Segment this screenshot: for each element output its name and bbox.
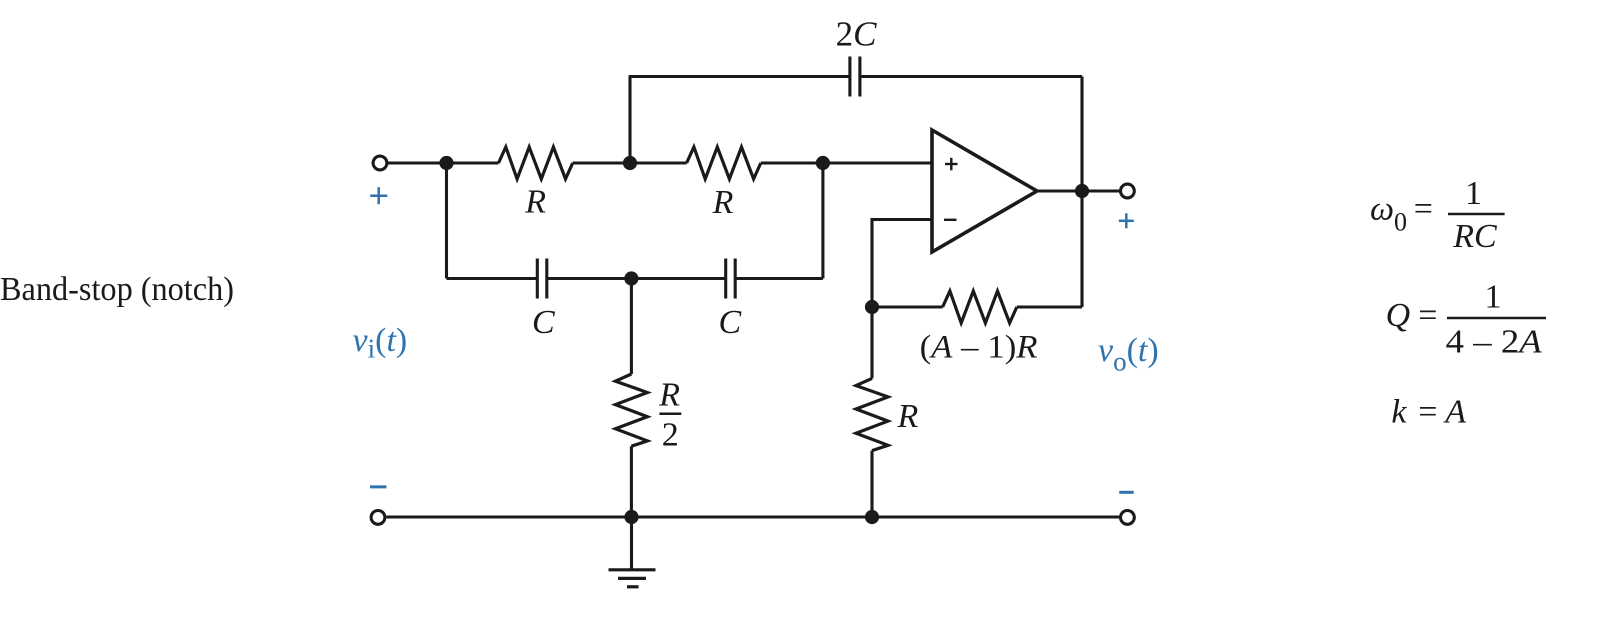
resistor R2: [687, 147, 761, 179]
svg-text:Q: Q: [1386, 297, 1411, 334]
terminal input top: [373, 156, 387, 170]
wire top row right: [860, 75, 1082, 78]
svg-text:1: 1: [1465, 175, 1482, 212]
svg-text:C: C: [719, 304, 742, 341]
svg-text:=: =: [1418, 394, 1437, 431]
capacitor C2: [726, 259, 736, 299]
svg-text:=: =: [1418, 297, 1437, 334]
terminal output top: [1121, 184, 1135, 198]
capacitor C1: [537, 259, 547, 299]
resistor (A-1)R: [943, 291, 1017, 323]
svg-text:2: 2: [662, 416, 679, 453]
resistor R vertical: [856, 378, 888, 450]
svg-text:1: 1: [1485, 279, 1502, 316]
plus sign output (blue): [1119, 213, 1134, 228]
wire J1 down: [445, 163, 448, 279]
svg-text:vi(t): vi(t): [353, 322, 408, 364]
wire R/2 to bottom rail: [630, 446, 633, 517]
ground stem: [630, 517, 633, 569]
wire (A-1)R to right vertical: [1017, 305, 1082, 308]
minus sign output bottom (blue): [1119, 491, 1134, 494]
formula Q = 1/(4-2A): [1386, 279, 1546, 361]
svg-text:ω0: ω0: [1370, 191, 1407, 237]
svg-text:k: k: [1391, 394, 1407, 431]
svg-text:R: R: [897, 398, 919, 435]
svg-text:4 – 2A: 4 – 2A: [1446, 324, 1542, 361]
wire R to bottom rail: [870, 451, 873, 517]
node bottom center: [624, 510, 638, 524]
svg-text:vo(t): vo(t): [1098, 332, 1159, 377]
op-amp plus input sign: [945, 158, 958, 171]
wire J5 down to R: [870, 307, 873, 378]
wire top row left: [629, 75, 850, 78]
svg-text:R: R: [524, 184, 546, 221]
svg-text:A: A: [1443, 394, 1466, 431]
wire J2 up: [628, 77, 631, 164]
resistor R1: [499, 147, 573, 179]
svg-text:R: R: [658, 377, 680, 414]
svg-text:=: =: [1414, 191, 1433, 228]
wire corner up to J3: [821, 163, 824, 279]
svg-text:(A – 1)R: (A – 1)R: [920, 330, 1038, 366]
plus sign input (blue): [370, 187, 387, 204]
wire right vertical down to feedback row: [1080, 77, 1083, 308]
node J4: [624, 271, 638, 285]
minus sign input bottom (blue): [370, 485, 387, 488]
node J3: [816, 156, 830, 170]
wire J5 to (A-1)R: [872, 305, 943, 308]
resistor R/2: [615, 374, 647, 446]
bottom rail wire: [387, 515, 1120, 518]
node J6 output: [1075, 184, 1089, 198]
svg-text:Band-stop (notch): Band-stop (notch): [0, 271, 234, 308]
wire C2 to right corner: [735, 277, 823, 280]
terminal input bottom: [371, 511, 385, 525]
node J1: [439, 156, 453, 170]
node J5: [865, 300, 879, 314]
svg-text:C: C: [532, 304, 555, 341]
wire R2 to op-amp plus input: [761, 161, 932, 164]
ground bars: [609, 570, 656, 587]
formula omega0 = 1/RC: [1370, 175, 1505, 255]
wire J4 down to R/2: [630, 279, 633, 375]
svg-text:2C: 2C: [836, 15, 878, 54]
wire C row left: [447, 277, 538, 280]
wire op-amp minus input: [872, 220, 932, 308]
op-amp minus input sign: [944, 219, 957, 221]
op-amp U1: [932, 130, 1037, 252]
wire input to J1: [388, 161, 499, 164]
wire C1 to J4 to C2: [547, 277, 726, 280]
terminal output bottom: [1121, 511, 1135, 525]
node bottom right: [865, 510, 879, 524]
svg-text:RC: RC: [1452, 218, 1497, 255]
wire op-amp output: [1037, 189, 1119, 192]
wire R1 to J2: [573, 161, 687, 164]
node J2: [623, 156, 637, 170]
formula k = A: [1391, 394, 1466, 431]
capacitor 2C: [850, 57, 860, 97]
svg-text:R: R: [712, 184, 734, 221]
